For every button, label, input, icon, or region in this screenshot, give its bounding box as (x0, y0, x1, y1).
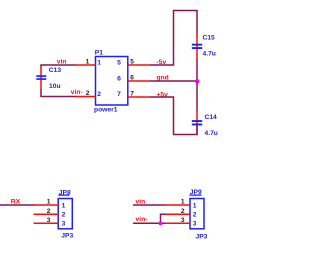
P1 pin 5 (128, 64, 150, 66)
wire vin- net bottom-left (41, 90, 76, 97)
P1 pin 1 (76, 64, 96, 66)
svg-text:power1: power1 (94, 107, 118, 114)
P1 pin 6 (128, 80, 150, 82)
wire vin- net to JP9 pin 3 (133, 222, 166, 224)
svg-text:C14: C14 (205, 114, 218, 121)
svg-text:JP3: JP3 (61, 233, 73, 240)
svg-text:7: 7 (130, 90, 134, 97)
svg-text:3: 3 (181, 217, 185, 224)
svg-text:5: 5 (130, 58, 134, 65)
JP9 pin 1 (165, 204, 190, 206)
svg-text:2: 2 (181, 208, 185, 215)
svg-text:3: 3 (47, 217, 51, 224)
capacitor C15 plates (192, 44, 202, 46)
svg-text:6: 6 (117, 76, 121, 83)
wire JP9 pin 2 jumper down to vin- (161, 214, 167, 223)
svg-text:1: 1 (193, 202, 197, 209)
svg-text:1: 1 (181, 199, 185, 206)
P1 pin 7 (128, 96, 150, 98)
junction gnd node (195, 79, 199, 83)
svg-text:3: 3 (193, 221, 197, 228)
svg-text:4.7u: 4.7u (203, 51, 216, 58)
svg-text:10u: 10u (49, 83, 61, 90)
JP8 pin 1 (34, 204, 59, 206)
wire -5v net up and over to C15 (150, 11, 197, 66)
capacitor C14 plates (192, 120, 202, 122)
wire C15 to gnd junction (196, 59, 198, 82)
connector JP9 box (190, 199, 204, 229)
capacitor C14 pin (196, 110, 198, 134)
svg-text:2: 2 (47, 208, 51, 215)
svg-text:vin: vin (57, 58, 67, 65)
JP8 pin 2 (34, 213, 59, 215)
svg-text:1: 1 (97, 60, 101, 67)
capacitor C15 pin (196, 34, 198, 58)
svg-text:7: 7 (117, 91, 121, 98)
svg-text:P1: P1 (95, 49, 103, 56)
svg-text:2: 2 (193, 212, 197, 219)
JP8 designator underline (58, 194, 69, 196)
wire RX net (0, 204, 34, 206)
svg-text:JP3: JP3 (196, 234, 208, 241)
svg-text:1: 1 (86, 58, 90, 65)
svg-text:2: 2 (97, 91, 101, 98)
wire vin net top-left (41, 65, 76, 67)
svg-text:1: 1 (47, 198, 51, 205)
connector JP8 box (58, 199, 72, 229)
svg-text:6: 6 (130, 74, 134, 81)
JP9 pin 3 (165, 222, 190, 224)
junction vin- node (158, 221, 162, 225)
P1 pin 2 (76, 96, 96, 98)
svg-text:vin-: vin- (136, 216, 148, 223)
wire gnd net (150, 80, 197, 82)
JP9 pin 2 (165, 213, 190, 215)
JP8 pin 3 (34, 222, 59, 224)
wire junction down to C14 (196, 81, 198, 111)
svg-text:3: 3 (62, 221, 66, 228)
svg-text:C13: C13 (49, 67, 62, 74)
connector P1 (power1) box (96, 57, 128, 106)
JP9 designator underline (189, 194, 201, 196)
capacitor C13 pin (40, 67, 42, 91)
svg-text:5: 5 (117, 60, 121, 67)
svg-text:2: 2 (86, 90, 90, 97)
svg-text:vin-: vin- (71, 89, 83, 96)
wire +5v net down and over to C14 (150, 97, 197, 135)
wire vin net to JP9 pin 1 (133, 204, 166, 206)
svg-text:4.7u: 4.7u (205, 130, 218, 137)
svg-text:2: 2 (62, 212, 66, 219)
svg-text:1: 1 (62, 202, 66, 209)
svg-text:C15: C15 (203, 34, 216, 41)
capacitor C13 plates (36, 75, 46, 77)
